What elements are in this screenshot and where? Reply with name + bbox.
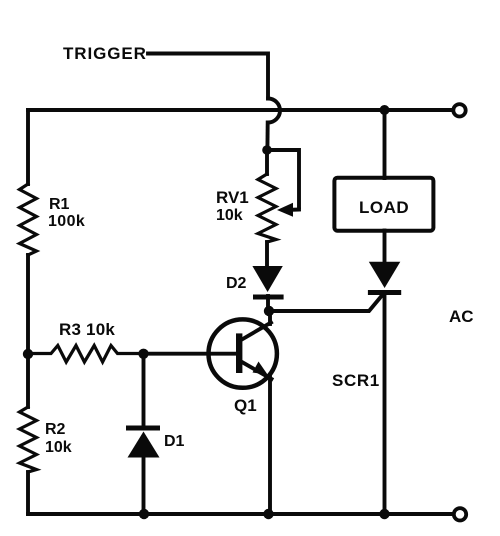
wire top rail [28, 108, 452, 112]
node emitter / bottom rail [263, 509, 273, 519]
svg-text:10k: 10k [216, 207, 243, 224]
wire base to Q1 [144, 352, 237, 356]
diode D2 [252, 266, 283, 300]
svg-text:TRIGGER: TRIGGER [63, 44, 147, 63]
wire left rail upper [26, 110, 30, 184]
svg-text:AC: AC [449, 307, 474, 326]
wire load to SCR [383, 231, 387, 263]
node D1 / bottom rail [139, 509, 149, 519]
SCR1 thyristor [368, 262, 401, 295]
resistor R1 [20, 184, 37, 255]
node collector / gate junction [264, 306, 274, 316]
svg-text:R3 10k: R3 10k [59, 320, 115, 339]
svg-text:100k: 100k [48, 213, 85, 230]
node divider base [23, 349, 33, 359]
svg-text:D2: D2 [226, 275, 247, 292]
wire base node to R2 [26, 354, 30, 407]
node R3 / D1 junction [138, 349, 148, 359]
svg-text:LOAD: LOAD [359, 198, 409, 217]
wire R2 to bottom rail [26, 472, 30, 514]
wire SCR cathode to bottom rail [383, 295, 387, 514]
wire R1 to base node [26, 255, 30, 354]
wire RV1 to D2 [265, 242, 269, 266]
svg-text:SCR1: SCR1 [332, 371, 380, 390]
svg-text:Q1: Q1 [234, 396, 257, 415]
svg-text:RV1: RV1 [216, 188, 249, 207]
load box [334, 178, 433, 231]
wire collector [268, 311, 272, 324]
svg-text:R1: R1 [49, 196, 70, 213]
node trigger / RV1 top [262, 145, 272, 155]
wire D2 to collector node [266, 296, 270, 311]
svg-text:R2: R2 [45, 421, 66, 438]
node SCR / bottom rail [379, 509, 389, 519]
svg-text:10k: 10k [45, 439, 72, 456]
wire hop down to RV1 node [265, 123, 269, 151]
node load/top-rail junction [380, 105, 390, 115]
wire bottom rail [28, 512, 452, 516]
wire emitter down [268, 377, 272, 514]
diode D1 [126, 354, 160, 514]
resistor R2 [20, 407, 37, 472]
terminal top right [453, 104, 465, 116]
RV1 wiper arrow [277, 203, 299, 217]
wire trigger line to hop [148, 54, 268, 99]
wire gate to SCR [269, 296, 382, 311]
svg-text:D1: D1 [164, 433, 185, 450]
potentiometer RV1 body [258, 174, 276, 242]
terminal bottom right [454, 508, 466, 520]
RV1 wiper wire [267, 150, 299, 207]
transistor Q1 [209, 319, 277, 387]
wire load top lead [383, 110, 387, 178]
resistor R3 [28, 346, 144, 363]
wire RV1 top lead [265, 150, 269, 174]
wire hop over top rail [268, 99, 280, 123]
